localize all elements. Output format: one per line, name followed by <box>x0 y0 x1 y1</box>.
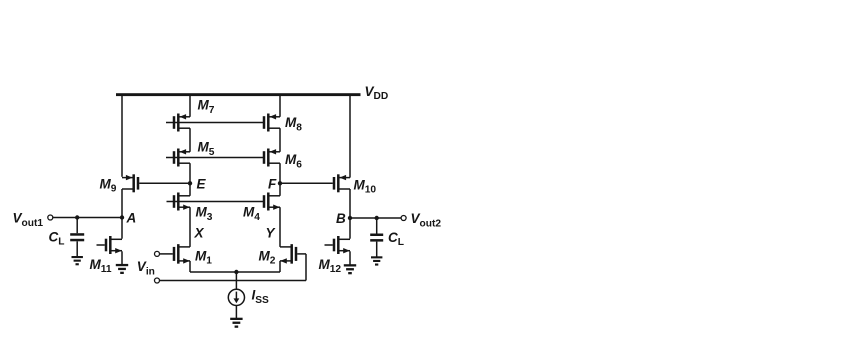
svg-text:VDD: VDD <box>365 84 389 102</box>
wire M12 source to ground <box>349 251 351 264</box>
svg-text:Y: Y <box>266 226 277 241</box>
svg-text:M1: M1 <box>195 248 212 266</box>
transistor M6 (PMOS mirror, mid right) <box>263 149 280 167</box>
wire node F to M10 gate <box>280 182 333 184</box>
node A junction dot <box>120 215 124 219</box>
svg-text:E: E <box>197 176 207 191</box>
transistor M9 (PMOS second stage, left) <box>122 174 139 192</box>
gate wire M5-M6 <box>166 157 265 159</box>
wire M10 drain to node B <box>349 189 351 218</box>
gate wire M3-M4 <box>167 201 266 203</box>
current source ISS <box>228 289 244 305</box>
svg-text:F: F <box>268 176 277 191</box>
wire M7 drain to M5 source <box>189 128 191 152</box>
tail junction dot <box>234 270 238 274</box>
svg-text:M2: M2 <box>259 248 276 266</box>
VDD power rail <box>116 93 361 96</box>
transistor M12 (NMOS current sink, right) <box>333 236 350 254</box>
svg-text:M10: M10 <box>354 177 377 195</box>
svg-text:X: X <box>194 226 205 241</box>
ground symbol under ISS <box>230 318 242 328</box>
Vout1 terminal circle <box>48 215 53 220</box>
svg-text:M11: M11 <box>90 257 112 275</box>
wire ISS to ground <box>235 306 237 319</box>
wire M1 source down to tail <box>189 261 191 272</box>
gate wire M7-M8 <box>166 122 265 124</box>
ground symbol under M11 <box>116 264 128 274</box>
wire Vout1 to node A <box>53 217 122 219</box>
svg-text:M4: M4 <box>243 205 260 223</box>
wire M5 drain to node E <box>189 163 191 183</box>
wire M2 source down to tail <box>279 261 281 272</box>
wire across to Vin- <box>159 280 306 282</box>
wire M2 gate lead <box>297 253 306 255</box>
node B junction dot <box>348 216 352 220</box>
svg-text:B: B <box>336 211 346 226</box>
transistor M7 (PMOS mirror, top left) <box>173 114 190 132</box>
wire M4 source to node Y to M2 drain <box>279 207 281 247</box>
svg-text:A: A <box>126 211 137 226</box>
wire node B to M12 drain <box>349 218 351 239</box>
tail wire joining M1 and M2 sources <box>190 271 280 273</box>
Vin- terminal circle <box>155 278 160 283</box>
svg-text:Vin: Vin <box>137 259 155 278</box>
svg-text:Vout2: Vout2 <box>411 211 442 229</box>
wire VDD rail to M10 source <box>349 95 351 178</box>
wire junction to CL1 top plate <box>76 218 78 234</box>
wire M11 source to ground <box>121 251 123 264</box>
M11 gate lead <box>97 244 105 246</box>
wire M6 drain to node F <box>279 163 281 183</box>
wire VDD rail to M8 source <box>279 95 281 117</box>
wire CL2 bottom plate to ground <box>376 242 378 257</box>
svg-text:CL: CL <box>49 230 65 248</box>
transistor M4 (NMOS, right) <box>263 193 280 211</box>
wire node E to M3 drain <box>189 183 191 196</box>
wire Vin+ to M1 gate <box>159 253 173 255</box>
svg-text:M6: M6 <box>285 152 302 170</box>
svg-text:M8: M8 <box>285 115 302 133</box>
transistor M3 (NMOS, left) <box>173 193 190 211</box>
wire M9 gate to node E <box>139 182 190 184</box>
transistor M5 (PMOS mirror, mid left) <box>173 149 190 167</box>
node E junction dot <box>188 181 192 185</box>
Vout2 terminal circle <box>401 216 406 221</box>
svg-text:M12: M12 <box>319 257 342 275</box>
wire node A to M11 drain <box>121 218 123 239</box>
ground symbol under M12 <box>344 264 356 274</box>
ground symbol under CL1 <box>72 256 83 265</box>
ground symbol under CL2 <box>371 256 382 265</box>
wire M9 drain to node A <box>121 189 123 218</box>
capacitor CL (right) <box>370 234 383 242</box>
svg-text:M7: M7 <box>198 98 215 116</box>
svg-text:M9: M9 <box>100 176 117 194</box>
wire CL1 bottom plate to ground <box>76 241 78 256</box>
transistor M11 (NMOS current sink, left) <box>105 236 122 254</box>
svg-text:ISS: ISS <box>252 288 270 306</box>
wire node F to M4 drain <box>279 183 281 196</box>
transistor M10 (PMOS second stage, right) <box>333 174 350 192</box>
wire M3 source to node X to M1 drain <box>189 207 191 247</box>
transistor M8 (PMOS mirror, top right) <box>263 114 280 132</box>
transistor M1 (NMOS input pair, left) <box>173 244 190 264</box>
wire tail to ISS current source <box>235 272 237 289</box>
wire junction to CL2 top plate <box>376 218 378 234</box>
transistor M2 (NMOS input pair, right) <box>280 244 297 264</box>
capacitor CL (left) <box>70 233 84 241</box>
wire node B to Vout2 <box>350 217 401 219</box>
svg-text:CL: CL <box>388 230 404 248</box>
wire VDD rail to M7 source <box>189 95 191 117</box>
Vin+ terminal circle <box>155 251 160 256</box>
M12 gate lead <box>325 244 333 246</box>
wire M2 gate down <box>305 254 307 281</box>
svg-text:Vout1: Vout1 <box>13 211 44 229</box>
wire M8 drain to M6 source <box>279 128 281 152</box>
junction dot for CL1 branch <box>75 215 79 219</box>
wire VDD rail to M9 source <box>121 95 123 177</box>
junction dot for CL2 branch <box>375 216 379 220</box>
node F junction dot <box>278 181 282 185</box>
svg-text:M5: M5 <box>198 140 215 158</box>
svg-text:M3: M3 <box>196 205 213 223</box>
